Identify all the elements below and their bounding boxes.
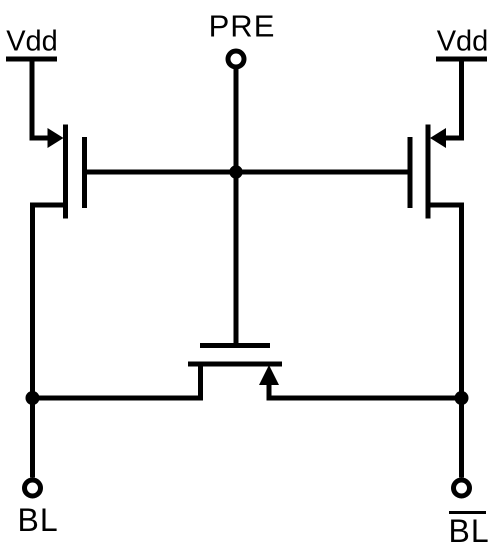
svg-text:BL: BL	[449, 513, 490, 549]
svg-text:Vdd: Vdd	[6, 26, 58, 58]
svg-text:BL: BL	[18, 502, 59, 538]
svg-text:PRE: PRE	[209, 9, 276, 44]
svg-text:Vdd: Vdd	[437, 26, 489, 58]
